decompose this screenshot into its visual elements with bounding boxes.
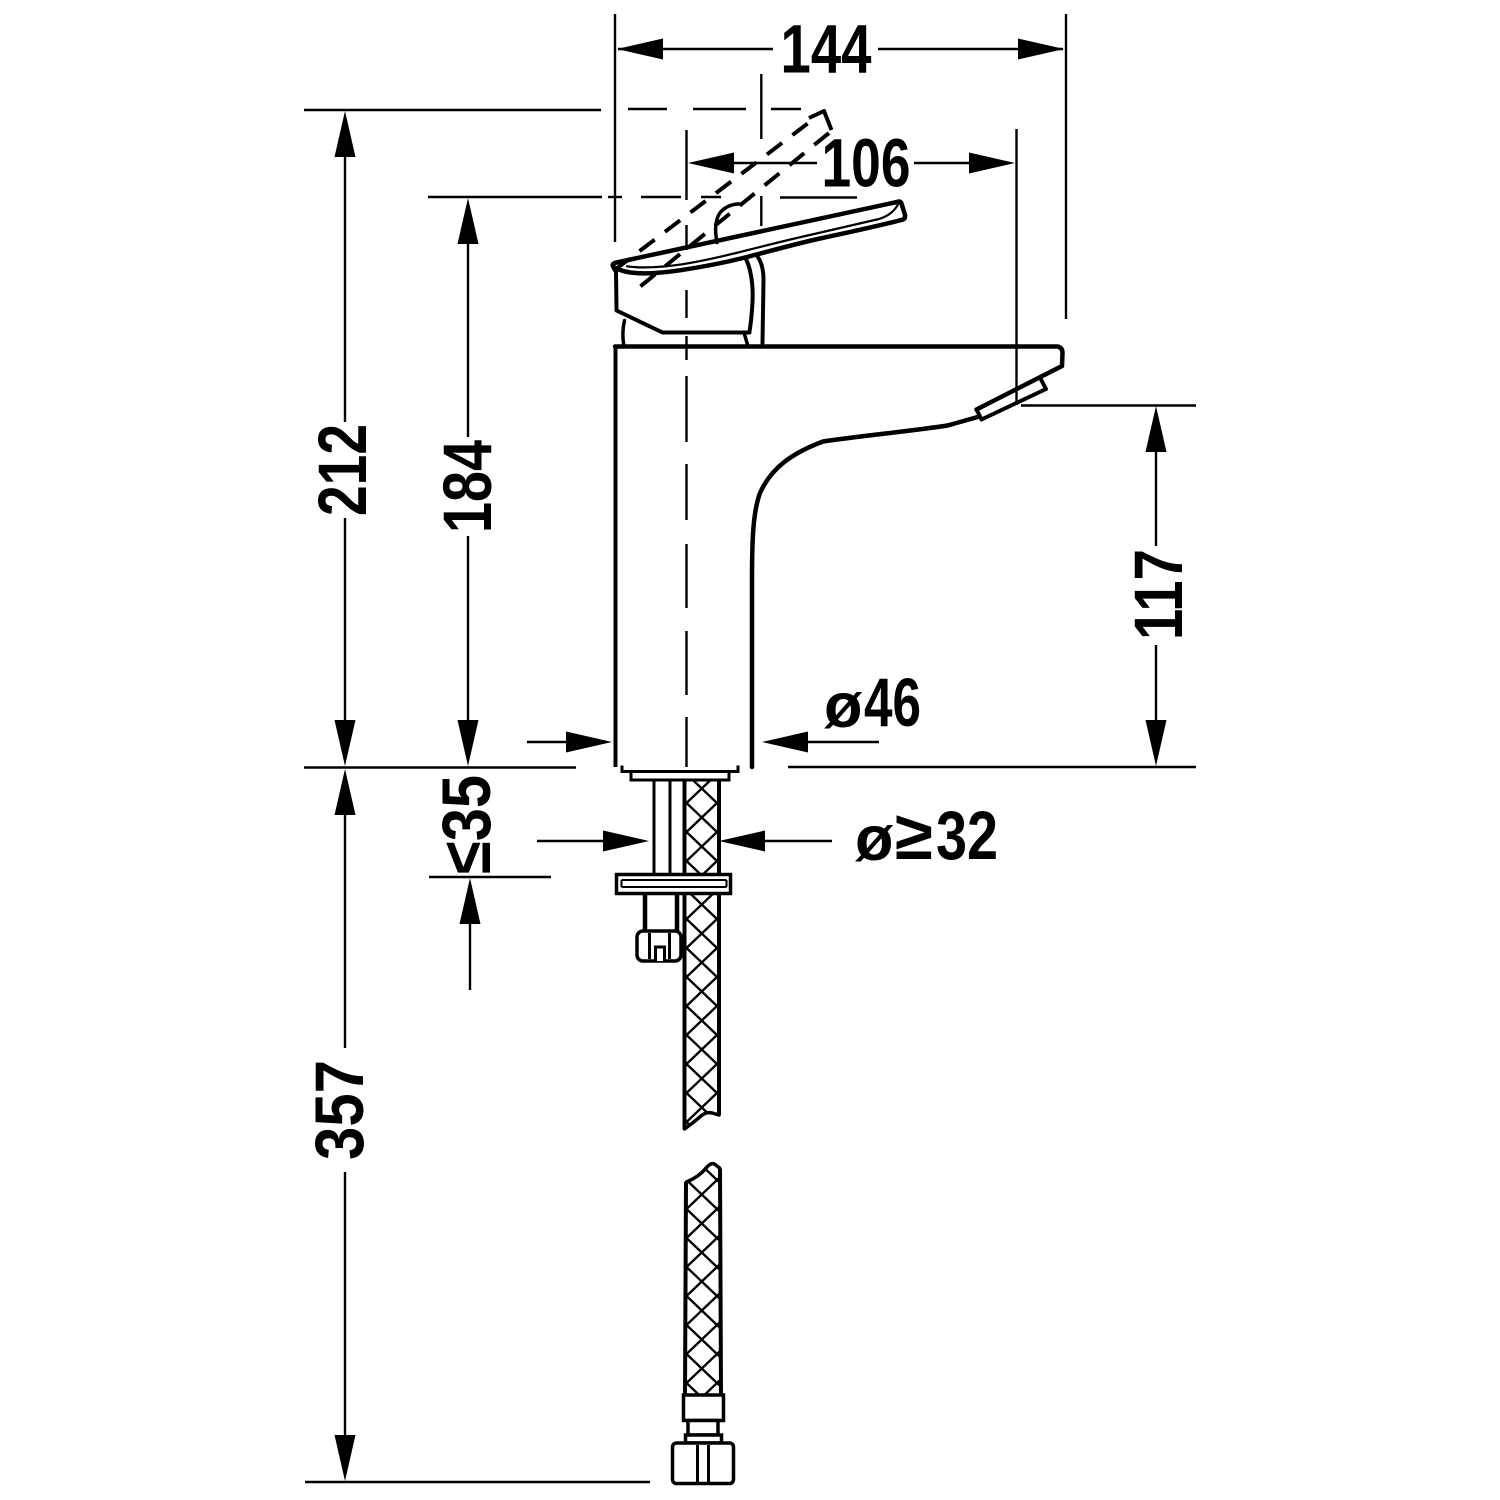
dimension 357 bottom reference line bbox=[305, 1481, 650, 1483]
raised lever tip cap bbox=[809, 111, 832, 130]
dimension max 35 arrow with tail bbox=[469, 920, 471, 990]
svg-text:106: 106 bbox=[822, 125, 911, 202]
svg-text:ø: ø bbox=[855, 804, 894, 874]
base ring left edge bbox=[623, 321, 625, 347]
raised lever lower edge (dashed) bbox=[631, 133, 829, 294]
hose end ring bbox=[686, 1435, 722, 1443]
mounting nut bbox=[637, 931, 681, 961]
centerline tick of raised lever knob (dashed) bbox=[760, 74, 762, 226]
dimension 212 top reference line with dashed continuation bbox=[304, 109, 801, 110]
dimension 357 arrowheads bbox=[335, 769, 356, 1481]
hose end collar bbox=[688, 1421, 718, 1436]
svg-text:ø: ø bbox=[824, 671, 863, 741]
dimension 212 dimension line bbox=[344, 155, 346, 722]
svg-text:32: 32 bbox=[936, 797, 998, 874]
lever handle blade inner line bbox=[627, 202, 900, 268]
svg-text:≥: ≥ bbox=[895, 797, 933, 874]
dimension 144 arrowheads bbox=[617, 39, 1064, 60]
faucet column left edge bbox=[614, 347, 618, 768]
svg-text:46: 46 bbox=[864, 664, 921, 741]
dimension 117 top reference line bbox=[1021, 404, 1196, 406]
mounting flange washer bbox=[617, 875, 731, 894]
stud sleeve below flange bbox=[645, 894, 677, 931]
dimension 144 extension lines bbox=[615, 14, 1066, 319]
dimension 184 dimension line bbox=[467, 242, 469, 722]
svg-text:144: 144 bbox=[781, 11, 872, 88]
vertical centerline of faucet body (dashed) bbox=[685, 225, 687, 767]
dimension 106 extension lines bbox=[687, 129, 1017, 405]
hose end union nut bbox=[673, 1443, 734, 1484]
dimension max 35 reference line bbox=[429, 876, 551, 878]
mounting deck reference line right bbox=[788, 766, 1196, 768]
dimension 184 top reference line with dashed continuation bbox=[428, 196, 857, 199]
dimension 106 dimension line bbox=[733, 162, 970, 164]
spout aerator band bbox=[977, 378, 1047, 420]
dimension 144 dimension line bbox=[618, 48, 1063, 50]
spout underside curve and column right edge bbox=[752, 426, 948, 768]
svg-text:212: 212 bbox=[304, 424, 381, 516]
dimension dia 32 arrows bbox=[537, 840, 832, 842]
dimension 357 dimension line bbox=[344, 813, 346, 1438]
dimension 117 dimension line bbox=[1155, 450, 1157, 722]
lever neck right edge bbox=[758, 257, 764, 344]
lever handle blade outline bbox=[613, 202, 905, 274]
dimension 106 arrowheads bbox=[688, 153, 1015, 174]
base plate under column bbox=[622, 767, 738, 780]
upper flexible hose with braid hatch bbox=[685, 780, 720, 1129]
svg-text:357: 357 bbox=[301, 1060, 378, 1160]
dimension 117 arrowheads bbox=[1146, 406, 1167, 766]
svg-text:184: 184 bbox=[429, 440, 506, 533]
spout tip under edge bbox=[948, 417, 980, 426]
svg-text:117: 117 bbox=[1120, 549, 1197, 640]
dimension dia 46 arrows bbox=[527, 741, 879, 743]
raised lever upper edge (dashed) bbox=[614, 123, 809, 271]
faucet body top and spout cut face bbox=[615, 347, 1063, 410]
cartridge dome cap outline bbox=[614, 268, 750, 333]
lever neck left edge bbox=[745, 258, 753, 332]
dimension 184 arrowheads bbox=[458, 198, 479, 766]
threaded mounting stud bbox=[654, 780, 670, 874]
mounting nut slot bbox=[656, 947, 665, 961]
raised lever neck arc bbox=[716, 204, 740, 243]
lower flexible hose with braid hatch bbox=[685, 1164, 721, 1395]
base ring right edge bbox=[744, 333, 748, 347]
dimension 212 arrowheads bbox=[335, 111, 356, 766]
mounting deck reference line left bbox=[304, 766, 576, 768]
svg-text:≤35: ≤35 bbox=[428, 775, 505, 874]
hose end ferrule bbox=[684, 1395, 724, 1421]
